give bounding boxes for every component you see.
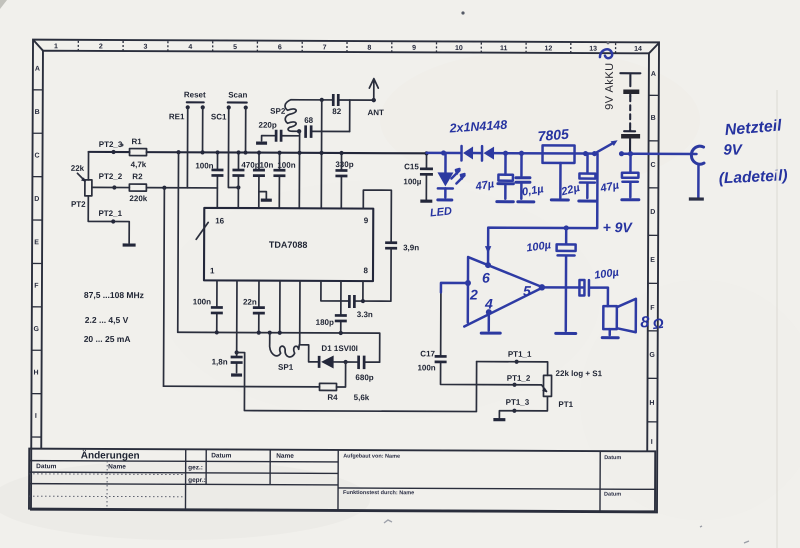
connector jack Netzteil xyxy=(691,146,704,164)
svg-text:10: 10 xyxy=(455,45,463,52)
svg-text:11: 11 xyxy=(500,45,508,52)
svg-text:470p: 470p xyxy=(241,161,259,170)
SCHEMATIC-BLUE xyxy=(426,48,789,338)
svg-text:68: 68 xyxy=(304,116,313,125)
wire: SP2 top to 82 xyxy=(300,99,374,101)
svg-text:B: B xyxy=(35,109,40,116)
SCHEMATIC-BLACK xyxy=(70,60,641,420)
svg-text:9V AkKU: 9V AkKU xyxy=(604,62,616,110)
svg-text:R2: R2 xyxy=(132,172,143,181)
svg-text:3,9n: 3,9n xyxy=(403,243,419,252)
wire: R2 net xyxy=(92,186,217,189)
wire: output to coupling cap xyxy=(544,286,583,289)
svg-text:H: H xyxy=(649,400,654,407)
svg-text:5,6k: 5,6k xyxy=(354,393,370,402)
capacitor 100u rail with ground xyxy=(564,225,569,230)
svg-text:4,7k: 4,7k xyxy=(131,160,147,169)
svg-text:9: 9 xyxy=(412,45,416,52)
svg-text:SC1: SC1 xyxy=(211,112,227,121)
svg-text:A: A xyxy=(651,71,656,78)
ground 1,8n xyxy=(231,373,242,376)
svg-text:Änderungen: Änderungen xyxy=(81,448,140,461)
svg-text:Scan: Scan xyxy=(228,90,247,99)
svg-text:C15: C15 xyxy=(404,162,419,171)
pin 16 marker slash xyxy=(196,222,208,239)
ground PT1_3 xyxy=(493,418,505,421)
wire: pin2 down to 1,8n node xyxy=(236,281,238,353)
svg-text:PT2: PT2 xyxy=(71,200,86,209)
svg-text:100n: 100n xyxy=(417,363,435,372)
svg-text:PT1_3: PT1_3 xyxy=(506,398,530,407)
svg-text:+ 9V: + 9V xyxy=(603,219,634,235)
svg-text:Reset: Reset xyxy=(184,90,206,99)
svg-text:R1: R1 xyxy=(131,137,142,146)
svg-text:220k: 220k xyxy=(129,194,147,203)
svg-text:100n: 100n xyxy=(195,161,213,170)
svg-text:F: F xyxy=(34,283,39,290)
svg-text:SP2: SP2 xyxy=(270,107,286,116)
svg-text:I: I xyxy=(35,413,37,420)
svg-text:D: D xyxy=(34,196,39,203)
svg-text:100µ: 100µ xyxy=(403,177,421,186)
svg-text:Datum: Datum xyxy=(604,492,621,498)
antenna ANT xyxy=(372,98,376,102)
LED with ground xyxy=(444,153,447,197)
svg-text:Ω: Ω xyxy=(651,315,665,332)
svg-text:RE1: RE1 xyxy=(169,112,185,121)
potentiometer PT2 22k xyxy=(88,152,129,243)
svg-text:8: 8 xyxy=(640,314,649,331)
svg-text:4: 4 xyxy=(188,44,192,51)
svg-text:220p: 220p xyxy=(259,121,277,130)
wire: SP2 node down to IC pin 12 xyxy=(298,131,300,208)
svg-text:9: 9 xyxy=(364,216,369,225)
capacitor 22u with ground xyxy=(586,154,589,198)
svg-text:3: 3 xyxy=(144,44,148,51)
node PT2_1 xyxy=(111,219,115,223)
svg-text:16: 16 xyxy=(215,216,224,225)
svg-text:ANT: ANT xyxy=(367,108,384,117)
svg-text:2.2 ... 4,5 V: 2.2 ... 4,5 V xyxy=(85,315,129,325)
svg-text:22n: 22n xyxy=(243,298,257,307)
wire: left bus down to R4 xyxy=(163,188,166,386)
svg-text:1: 1 xyxy=(210,266,215,275)
ground C15 xyxy=(420,200,432,203)
svg-text:12: 12 xyxy=(544,45,552,52)
node PT2_3 xyxy=(111,150,115,154)
svg-text:6: 6 xyxy=(482,270,490,286)
svg-text:PT1_2: PT1_2 xyxy=(507,374,531,383)
svg-text:PT1_1: PT1_1 xyxy=(508,350,532,359)
wire: bus from rail to under-IC bus xyxy=(177,152,180,332)
svg-text:Datum: Datum xyxy=(36,463,56,470)
blue curl on frame top xyxy=(600,49,612,58)
svg-text:14: 14 xyxy=(634,46,642,53)
wire: tap down to IC pin 11 xyxy=(320,100,322,208)
node pin 5 output xyxy=(539,284,545,290)
wire: under-IC bus xyxy=(178,332,380,362)
svg-text:F: F xyxy=(650,305,655,312)
svg-text:LED: LED xyxy=(429,205,452,219)
diode D3 1N4148 xyxy=(481,146,484,160)
svg-text:330p: 330p xyxy=(335,160,353,169)
node pin 4 with ground xyxy=(486,309,492,315)
svg-text:Datum: Datum xyxy=(604,455,621,461)
ground 10n xyxy=(261,199,272,202)
svg-text:7805: 7805 xyxy=(537,126,570,145)
svg-text:9V: 9V xyxy=(723,142,743,159)
svg-text:PT2_2: PT2_2 xyxy=(99,172,123,181)
svg-text:A: A xyxy=(35,66,40,73)
svg-text:8: 8 xyxy=(367,45,371,52)
svg-text:R4: R4 xyxy=(327,393,338,402)
svg-text:gez.:: gez.: xyxy=(188,464,203,471)
diode D2 1N4148 xyxy=(460,146,463,160)
svg-text:8: 8 xyxy=(364,266,369,275)
svg-text:E: E xyxy=(650,257,655,264)
TITLEBLOCK xyxy=(29,448,655,511)
wire: 1,8n node loop to PT1_1 xyxy=(236,353,476,412)
svg-text:6: 6 xyxy=(278,44,282,51)
svg-text:C: C xyxy=(34,152,39,159)
svg-text:C17: C17 xyxy=(420,349,435,358)
svg-text:TDA7088: TDA7088 xyxy=(269,240,308,250)
node PT2_2 xyxy=(112,185,116,189)
wire: 68 to ANT loop xyxy=(349,100,351,131)
svg-text:5: 5 xyxy=(233,44,237,51)
speaker LS1 8ohm with ground xyxy=(603,306,617,329)
svg-text:1: 1 xyxy=(54,43,58,50)
svg-text:Funktionstest durch: Name: Funktionstest durch: Name xyxy=(343,490,414,496)
svg-text:22k: 22k xyxy=(71,164,85,173)
wire: pin9 loop xyxy=(363,190,391,241)
svg-text:B: B xyxy=(651,115,656,122)
resistor R2 xyxy=(129,184,146,191)
svg-text:H: H xyxy=(34,369,39,376)
svg-text:Datum: Datum xyxy=(211,452,231,459)
switch S1 xyxy=(592,151,597,156)
svg-text:D: D xyxy=(650,209,655,216)
svg-text:2: 2 xyxy=(99,43,103,50)
svg-text:Name: Name xyxy=(276,453,294,460)
node pin 2 xyxy=(465,280,471,286)
wire: pin4 to bus xyxy=(279,281,281,333)
svg-text:20 ... 25 mA: 20 ... 25 mA xyxy=(84,334,131,344)
svg-text:PT2_1: PT2_1 xyxy=(98,209,122,218)
svg-text:2: 2 xyxy=(469,287,478,303)
svg-text:PT1: PT1 xyxy=(558,400,573,409)
svg-text:22k log + S1: 22k log + S1 xyxy=(556,369,603,378)
node pin 6 xyxy=(485,262,491,268)
svg-text:PT2_3: PT2_3 xyxy=(99,140,123,149)
wire: +9V feed xyxy=(488,153,597,265)
svg-text:7: 7 xyxy=(323,44,327,51)
svg-text:E: E xyxy=(34,239,39,246)
battery 9V Akku xyxy=(620,73,640,154)
svg-text:G: G xyxy=(34,326,40,333)
svg-text:100n: 100n xyxy=(193,297,211,306)
svg-text:D1 1SVI0I: D1 1SVI0I xyxy=(321,344,358,353)
svg-text:Name: Name xyxy=(108,463,126,470)
svg-text:3.3n: 3.3n xyxy=(357,310,373,319)
svg-text:680p: 680p xyxy=(355,373,373,382)
svg-text:I: I xyxy=(651,439,653,446)
svg-text:5: 5 xyxy=(523,283,531,299)
svg-text:1,8n: 1,8n xyxy=(212,357,228,366)
svg-text:4: 4 xyxy=(484,296,493,312)
node R2/left-bus junction xyxy=(162,186,166,190)
svg-text:13: 13 xyxy=(589,46,597,53)
svg-text:82: 82 xyxy=(332,107,341,116)
svg-text:SP1: SP1 xyxy=(278,363,294,372)
svg-text:180p: 180p xyxy=(316,318,334,327)
wire: pin5 to varactor xyxy=(300,281,319,362)
wire: charger rail xyxy=(427,153,697,154)
ground PT2_1 xyxy=(123,243,136,246)
op-amp/IC U1 TDA7088 xyxy=(204,208,373,281)
svg-text:G: G xyxy=(649,352,655,359)
svg-text:C: C xyxy=(650,162,655,169)
svg-text:10n: 10n xyxy=(260,161,274,170)
svg-text:gepr.:: gepr.: xyxy=(188,477,206,484)
ground 220p xyxy=(256,142,267,145)
svg-text:Aufgebaut von: Name: Aufgebaut von: Name xyxy=(343,453,400,459)
op-amp U3 xyxy=(464,257,543,327)
capacitor 47u with ground xyxy=(504,153,507,198)
svg-text:87,5 ...108 MHz: 87,5 ...108 MHz xyxy=(84,290,144,300)
capacitor 0,1u with ground xyxy=(520,153,523,198)
capacitor 47u (2) with ground xyxy=(629,154,632,197)
wire: main top rail xyxy=(89,152,427,153)
resistor R1 xyxy=(130,149,147,156)
wire: pin2 to C17 xyxy=(441,283,468,293)
